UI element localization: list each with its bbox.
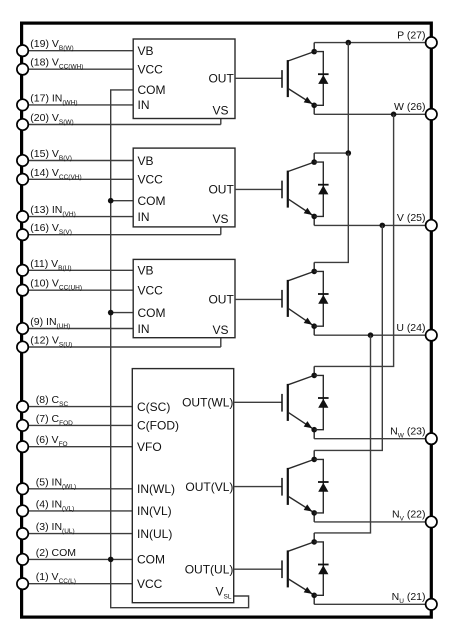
svg-text:OUT: OUT — [208, 183, 234, 197]
junction Q5 emitter node — [311, 510, 317, 516]
svg-text:C(SC): C(SC) — [137, 400, 170, 414]
wire V drop to Q5 collector rail — [314, 225, 382, 450]
transistor Q1 (IGBT) — [282, 43, 314, 115]
wire pin 8 to block — [23, 406, 133, 408]
junction COM bus / U2.COM — [108, 198, 114, 204]
terminal pin 9 — [17, 323, 28, 334]
terminal pin 7 — [17, 420, 28, 431]
wire pin 4 to block — [23, 510, 133, 512]
wire V phase rail to pin V(25) — [314, 224, 426, 226]
svg-text:COM: COM — [137, 553, 165, 567]
junction Q6 collector node — [311, 539, 317, 545]
svg-text:VCC: VCC — [138, 284, 164, 298]
wire pin 16 to block — [23, 234, 221, 236]
terminal pin 13 — [17, 211, 28, 222]
svg-text:IN: IN — [138, 98, 150, 112]
terminal pin 12 — [17, 341, 28, 352]
wire U4.OUT(UL) to Q6 gate — [234, 568, 282, 570]
svg-text:COM: COM — [138, 194, 166, 208]
svg-text:VFO: VFO — [137, 440, 162, 454]
svg-text:VS: VS — [212, 323, 228, 337]
wire W phase rail to pin W(26) — [314, 113, 426, 115]
terminal pin NW — [426, 433, 437, 444]
freewheel diode D5 — [314, 459, 328, 513]
svg-text:U (24): U (24) — [396, 322, 425, 334]
svg-text:VB: VB — [138, 44, 154, 58]
svg-text:P (27): P (27) — [397, 29, 425, 41]
terminal pin 14 — [17, 174, 28, 185]
freewheel diode D3 — [314, 271, 328, 326]
transistor Q3 (IGBT) — [282, 262, 314, 335]
wire COM bus to U2.COM — [111, 200, 134, 202]
wire P bus down to Q2 collector rail — [347, 43, 349, 154]
wire U1.VS to pin 20 — [220, 119, 222, 125]
wire pin 6 to block — [23, 446, 133, 448]
terminal pin 16 — [17, 229, 28, 240]
junction Q5 collector node — [311, 457, 317, 463]
svg-text:IN: IN — [138, 322, 150, 336]
wire U phase rail to pin U(24) — [314, 334, 426, 336]
freewheel diode D2 — [314, 162, 328, 216]
wire pin 3 to block — [23, 533, 133, 535]
terminal pin 2 — [17, 554, 28, 565]
junction Q1 emitter node — [311, 103, 317, 109]
svg-text:OUT(VL): OUT(VL) — [185, 480, 233, 494]
terminal pin NV — [426, 516, 437, 527]
wire pin 7 to block — [23, 424, 133, 426]
gate driver U1 (high-side HVIC) — [133, 39, 235, 119]
freewheel diode D6 — [314, 542, 328, 595]
junction Q3 emitter node — [311, 323, 317, 329]
wire U2.OUT to Q2 gate — [235, 188, 282, 190]
wire U1.OUT to Q1 gate — [235, 77, 282, 79]
freewheel diode D4 — [314, 375, 328, 429]
terminal pin 20 — [17, 119, 28, 130]
terminal pin 1 — [17, 578, 28, 589]
terminal pin 6 — [17, 441, 28, 452]
junction Q4 emitter node — [311, 427, 317, 433]
wire U4.OUT(WL) to Q4 gate — [234, 401, 282, 403]
wire U3.OUT to Q3 gate — [235, 298, 282, 300]
terminal pin P — [426, 37, 437, 48]
junction Q2 emitter node — [311, 214, 317, 220]
terminal pin 10 — [17, 285, 28, 296]
transistor Q2 (IGBT) — [282, 153, 314, 225]
terminal pin 18 — [17, 63, 28, 74]
wire COM bus to U3.COM — [111, 312, 134, 314]
terminal pin 17 — [17, 99, 28, 110]
svg-text:VS: VS — [212, 104, 228, 118]
wire U drop to Q6 collector rail — [314, 335, 370, 533]
junction COM bus / pin 2 COM wire — [108, 557, 114, 563]
svg-text:IN(WL): IN(WL) — [137, 482, 175, 496]
wire Q4 emitter rail to pin N_W(23) — [314, 438, 426, 440]
terminal pin 3 — [17, 528, 28, 539]
junction Q3 collector node — [311, 269, 317, 275]
wire Q2 collector rail — [314, 152, 348, 154]
gate driver U4 (low-side LVIC) — [132, 369, 233, 603]
wire pin 12 to block — [23, 346, 221, 348]
terminal pin W — [426, 109, 437, 120]
svg-text:NV (22): NV (22) — [392, 509, 426, 523]
svg-text:C(FOD): C(FOD) — [137, 419, 179, 433]
wire pin 2 to block — [23, 558, 133, 560]
svg-text:IN: IN — [138, 210, 150, 224]
svg-text:OUT(UL): OUT(UL) — [185, 563, 234, 577]
wire pin 10 to block — [23, 289, 134, 291]
wire pin 17 to block — [23, 104, 134, 106]
svg-text:(2) COM: (2) COM — [36, 547, 76, 559]
svg-text:COM: COM — [138, 306, 166, 320]
junction U rail / U drop — [368, 332, 374, 338]
junction COM bus / U3.COM — [108, 310, 114, 316]
terminal pin 5 — [17, 483, 28, 494]
gate driver U2 (high-side HVIC) — [133, 148, 235, 227]
svg-text:V (25): V (25) — [397, 212, 426, 224]
terminal pin 11 — [17, 265, 28, 276]
freewheel diode D1 — [314, 52, 328, 106]
wire U4.OUT(VL) to Q5 gate — [234, 486, 282, 488]
terminal pin NU — [426, 599, 437, 610]
svg-text:VCC: VCC — [137, 577, 163, 591]
transistor Q5 (IGBT) — [282, 450, 314, 522]
terminal pin 19 — [17, 45, 28, 56]
wire U3.VS to pin 12 — [220, 338, 222, 347]
svg-text:NW (23): NW (23) — [390, 425, 425, 439]
terminal pin U — [426, 330, 437, 341]
wire pin 19 to block — [23, 50, 134, 52]
svg-text:OUT: OUT — [208, 293, 234, 307]
wire Q5 emitter rail to pin N_V(22) — [314, 521, 426, 523]
junction Q6 emitter node — [311, 593, 317, 599]
svg-text:VCC: VCC — [138, 63, 164, 77]
transistor Q6 (IGBT) — [282, 533, 314, 604]
junction P bus / Q2 collector rail — [346, 150, 352, 156]
wire pin 5 to block — [23, 488, 133, 490]
svg-text:VS: VS — [212, 212, 228, 226]
gate driver U3 (high-side HVIC) — [133, 259, 235, 337]
wire pin 13 to block — [23, 216, 134, 218]
terminal pin 4 — [17, 505, 28, 516]
wire U2.VS to pin 16 — [220, 227, 222, 235]
svg-text:IN(UL): IN(UL) — [137, 527, 172, 541]
wire pin 20 to block — [23, 124, 221, 126]
terminal pin 15 — [17, 155, 28, 166]
terminal pin 8 — [17, 401, 28, 412]
svg-text:OUT(WL): OUT(WL) — [182, 396, 233, 410]
junction Q1 collector node — [311, 49, 317, 55]
junction P rail / P bus — [346, 40, 352, 46]
wire pin 11 to block — [23, 269, 134, 271]
wire W drop to Q4 collector rail — [314, 114, 393, 366]
wire pin 9 to block — [23, 328, 134, 330]
svg-text:VB: VB — [138, 264, 154, 278]
wire P bus down to Q3 collector rail — [314, 153, 348, 262]
wire Q6 emitter rail to pin N_U(21) — [314, 603, 426, 605]
junction Q2 collector node — [311, 159, 317, 165]
junction W rail / W drop — [391, 112, 397, 118]
svg-text:VCC: VCC — [138, 173, 164, 187]
transistor Q4 (IGBT) — [282, 366, 314, 438]
junction Q4 collector node — [311, 373, 317, 379]
wire pin 18 to block — [23, 68, 134, 70]
svg-text:IN(VL): IN(VL) — [137, 504, 172, 518]
wire pin 1 to block — [23, 583, 133, 585]
terminal pin V — [426, 220, 437, 231]
wire pin 15 to block — [23, 160, 134, 162]
wire pin 14 to block — [23, 178, 134, 180]
svg-text:COM: COM — [138, 83, 166, 97]
svg-text:W (26): W (26) — [394, 101, 426, 113]
svg-text:NU (21): NU (21) — [392, 591, 426, 605]
wire P rail to pin P(27) — [314, 42, 426, 44]
svg-text:OUT: OUT — [208, 72, 234, 86]
svg-text:VB: VB — [138, 154, 154, 168]
junction V rail / V drop — [380, 223, 386, 229]
COM bus wire from U1.COM down to V_SL return — [111, 90, 249, 608]
